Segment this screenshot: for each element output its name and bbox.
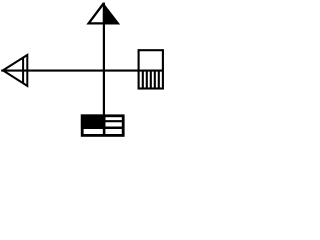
node marker down: black top-left cell fill [81,114,106,128]
down box: outer border [82,116,123,136]
down box: full-width lower divider [81,126,124,129]
node marker up: half-filled triangle outline [89,4,118,23]
hatch stripe 3 [150,71,152,89]
hatch stripe 5 [158,71,160,89]
node marker left: open triangle outline [3,55,27,86]
down box: right-side upper divider [104,120,124,122]
node marker right: hatched box outline [139,50,163,88]
wire vertical (top arrow tip to bottom box) [103,3,105,116]
wire horizontal (left arrow tip to right box) [1,70,163,72]
node marker left: inner vertical bar [22,57,24,84]
hatch stripe 4 [154,71,156,89]
node marker up: filled right half [103,4,118,23]
down box: vertical divider [103,115,106,136]
hatch stripe 2 [146,71,148,89]
hatch stripe 1 [142,71,144,89]
